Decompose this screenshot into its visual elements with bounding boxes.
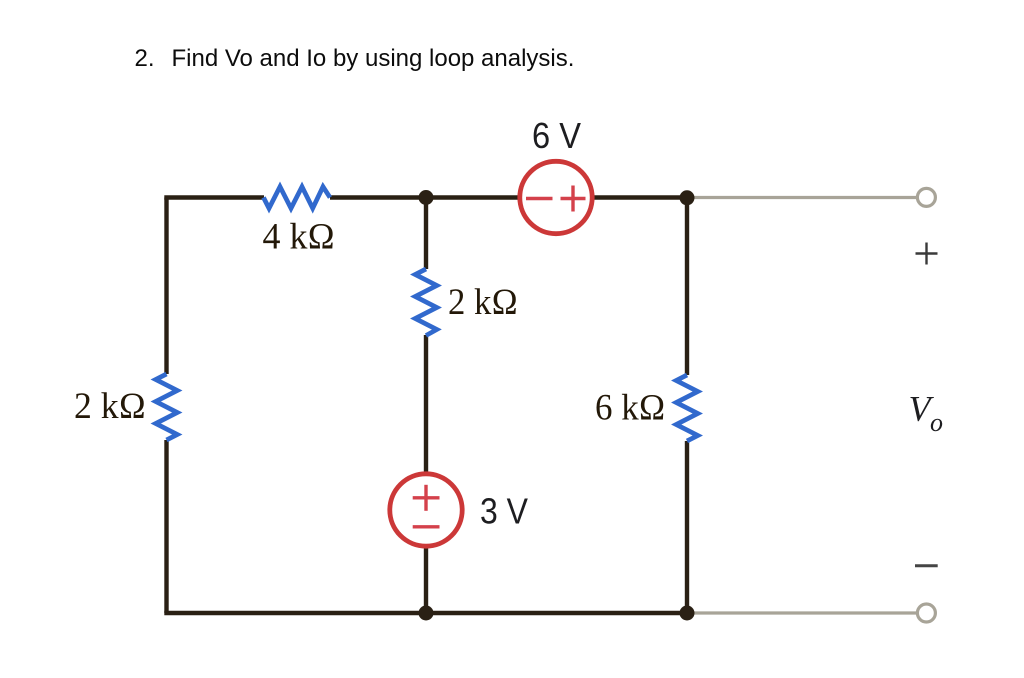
- node B top-right: [680, 190, 695, 205]
- wire: top-left horizontal to 4k resistor: [164, 195, 264, 199]
- source V2 minus sign: [413, 525, 440, 528]
- minus sign output polarity: [915, 564, 938, 567]
- wire: right branch node B down to 6k resistor: [685, 195, 689, 375]
- node A top-middle: [419, 190, 434, 205]
- node C bottom-middle: [419, 606, 434, 621]
- svg-text:Find Vo and Io by using loop a: Find Vo and Io by using loop analysis.: [172, 45, 575, 72]
- svg-text:3 V: 3 V: [480, 491, 528, 532]
- wire: 6V source to node B: [594, 195, 687, 199]
- svg-text:2 kΩ: 2 kΩ: [448, 282, 518, 323]
- wire: bottom terminal gray lead: [687, 611, 918, 614]
- wire: node A to 6V source: [426, 195, 518, 199]
- resistor R-4k (horizontal): [264, 187, 331, 209]
- source V1 minus sign: [526, 197, 553, 200]
- wire: 2k resistor to 3V source: [424, 335, 428, 473]
- source V2 plus sign: [413, 496, 440, 499]
- wire: top terminal gray lead: [687, 196, 918, 199]
- terminal: bottom output: [917, 604, 935, 622]
- svg-text:o: o: [930, 408, 943, 437]
- resistor R-2k middle (vertical): [415, 269, 437, 336]
- wire: middle branch node A down to 2k resistor: [424, 195, 428, 269]
- wire: 3V source to bottom node: [424, 547, 428, 613]
- plus sign output polarity: [916, 252, 938, 254]
- svg-text:2 kΩ: 2 kΩ: [74, 386, 146, 427]
- wire: left branch vertical: [164, 198, 168, 375]
- wire: 4k resistor to node A: [330, 195, 426, 199]
- svg-text:2.: 2.: [135, 45, 155, 72]
- svg-text:6 V: 6 V: [532, 115, 581, 156]
- resistor R-6k right (vertical): [676, 375, 698, 441]
- node D bottom-right: [680, 606, 695, 621]
- source V1 6V circle: [520, 161, 592, 233]
- svg-text:4 kΩ: 4 kΩ: [263, 217, 336, 258]
- svg-text:6 kΩ: 6 kΩ: [595, 388, 666, 429]
- terminal: top output: [917, 188, 935, 206]
- wire: 6k resistor to bottom: [685, 441, 689, 613]
- source V2 3V circle: [390, 474, 462, 546]
- resistor R-2k left (vertical): [156, 374, 178, 440]
- wire: bottom horizontal: [164, 611, 687, 615]
- source V1 plus sign: [561, 197, 586, 200]
